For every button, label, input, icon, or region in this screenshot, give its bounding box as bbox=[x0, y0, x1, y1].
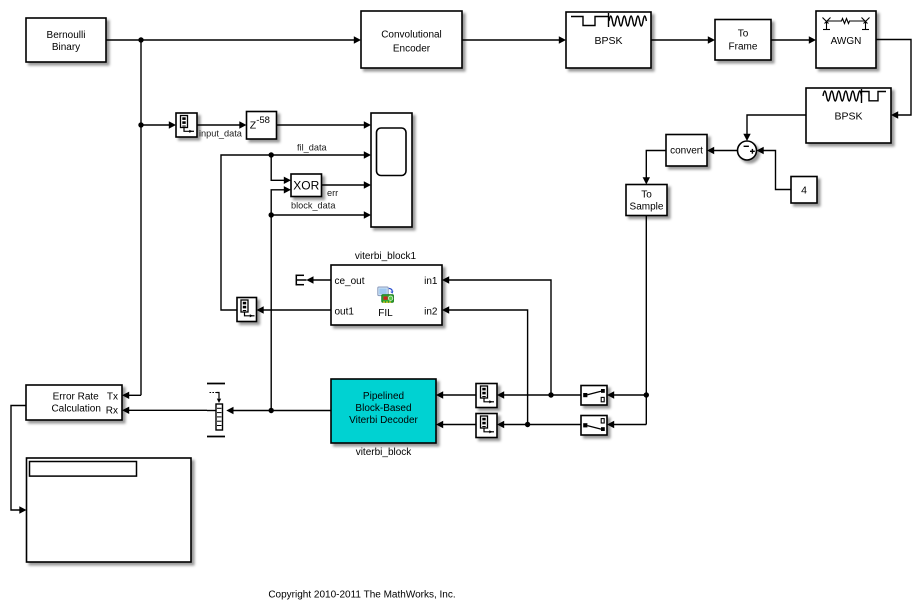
block Pipelined Block-Based Viterbi Decoder (cyan) bbox=[331, 379, 436, 443]
node junction at (271.2,410.5) bbox=[269, 408, 274, 413]
manual switch 1 (up position) bbox=[581, 386, 607, 406]
svg-text:input_data: input_data bbox=[199, 128, 243, 138]
wire FIL ce_out to terminator bbox=[306, 276, 331, 283]
svg-text:FIL: FIL bbox=[378, 308, 393, 319]
wire trunk to rate transition input_data bbox=[141, 121, 176, 128]
svg-text:fil_data: fil_data bbox=[297, 143, 328, 153]
constant 4 bbox=[791, 177, 817, 204]
wire delay to scope input 1 bbox=[277, 121, 372, 128]
wire fil_data branch down to XOR input 1 bbox=[271, 155, 291, 184]
node junction at (527.6,424.5) bbox=[525, 422, 530, 427]
wire To Frame to AWGN bbox=[771, 36, 816, 43]
block BPSK modulator bbox=[566, 12, 651, 68]
node junction at (551,395) bbox=[548, 392, 553, 397]
block Convolutional Encoder bbox=[361, 11, 462, 68]
wire vertical trunk x=141 from (141,40) down to Error Rate Tx bbox=[122, 40, 141, 399]
wire rate transition 2 to viterbi in2 bbox=[436, 421, 476, 428]
svg-text:Error Rate: Error Rate bbox=[53, 391, 100, 402]
node junction at (271.2,215) bbox=[269, 212, 274, 217]
wire switch 2 to rate transition 2 bbox=[497, 421, 581, 428]
wire BPSK demodulator to Sum bbox=[743, 115, 806, 141]
svg-text:To: To bbox=[738, 29, 749, 40]
svg-text:ce_out: ce_out bbox=[335, 276, 365, 287]
wire Error Rate output to Display bbox=[11, 406, 27, 514]
wire Convolutional Encoder to BPSK modulator bbox=[462, 36, 566, 43]
svg-text:viterbi_block1: viterbi_block1 bbox=[355, 251, 417, 262]
svg-text:Frame: Frame bbox=[729, 42, 758, 53]
scope block bbox=[371, 113, 412, 227]
svg-text:block_data: block_data bbox=[291, 201, 336, 211]
FIL icon bbox=[378, 287, 394, 303]
delay block Z-58 bbox=[247, 112, 277, 140]
svg-text:Copyright 2010-2011 The MathWo: Copyright 2010-2011 The MathWorks, Inc. bbox=[268, 590, 455, 601]
block convert (data type conversion) bbox=[666, 135, 707, 167]
wire FIL in1 from switch trunk bbox=[442, 276, 551, 395]
svg-text:Block-Based: Block-Based bbox=[355, 403, 411, 414]
svg-text:AWGN: AWGN bbox=[831, 36, 862, 47]
rate transition block 1 (to viterbi in1) bbox=[476, 384, 497, 408]
rate transition input_data block bbox=[176, 113, 197, 137]
block To Sample bbox=[626, 185, 667, 216]
node junction at (271.2,155) bbox=[269, 152, 274, 157]
wire rate transition to delay Z-58 bbox=[197, 121, 247, 128]
svg-text:Binary: Binary bbox=[52, 42, 80, 53]
svg-text:To: To bbox=[641, 190, 652, 201]
svg-text:4: 4 bbox=[801, 185, 807, 197]
node junction at (646.3,395) bbox=[644, 392, 649, 397]
svg-text:BPSK: BPSK bbox=[834, 111, 862, 123]
svg-text:viterbi_block: viterbi_block bbox=[356, 447, 413, 458]
block BPSK demodulator bbox=[806, 88, 891, 143]
svg-text:Encoder: Encoder bbox=[393, 44, 431, 55]
wire block_data branch to scope input 4 bbox=[271, 211, 371, 218]
svg-text:out1: out1 bbox=[335, 307, 355, 318]
svg-text:Tx: Tx bbox=[107, 391, 118, 402]
svg-text:Convolutional: Convolutional bbox=[381, 30, 442, 41]
wire viterbi decoder output to unbuffer bbox=[226, 407, 331, 414]
wire To Sample down to switches trunk bbox=[607, 216, 646, 429]
wire switch 1 to rate transition 1 bbox=[497, 391, 581, 398]
svg-text:-58: -58 bbox=[256, 115, 270, 126]
node junction at (141,40) bbox=[138, 37, 143, 42]
wire sum to convert bbox=[707, 147, 738, 154]
display block bbox=[27, 458, 192, 562]
svg-text:in1: in1 bbox=[424, 276, 438, 287]
block AWGN bbox=[816, 11, 876, 68]
wire convert to To Sample bbox=[643, 151, 666, 185]
sum block (minus, plus) bbox=[738, 141, 757, 160]
wire BPSK modulator to To Frame bbox=[651, 36, 715, 43]
svg-text:Bernoulli: Bernoulli bbox=[47, 30, 86, 41]
svg-text:Viterbi Decoder: Viterbi Decoder bbox=[349, 415, 418, 426]
wire unbuffer to Error Rate Rx bbox=[122, 407, 216, 414]
svg-text:Calculation: Calculation bbox=[51, 404, 100, 415]
svg-text:Rx: Rx bbox=[106, 406, 118, 417]
block Error Rate Calculation bbox=[26, 385, 122, 420]
block To Frame bbox=[715, 20, 771, 61]
wire constant 4 to sum bbox=[757, 147, 792, 190]
wire XOR output err to scope input 3 bbox=[322, 181, 372, 188]
svg-text:in2: in2 bbox=[424, 307, 438, 318]
rate transition block 2 (to viterbi in2) bbox=[476, 414, 497, 438]
block XOR (logical operator) bbox=[291, 174, 322, 197]
wire fil_data from rate transition up to scope input 2 bbox=[221, 151, 371, 310]
wire FIL out1 to rate transition bbox=[257, 306, 332, 313]
svg-text:XOR: XOR bbox=[293, 178, 319, 192]
node junction at (141,125) bbox=[138, 122, 143, 127]
svg-text:Sample: Sample bbox=[630, 201, 664, 212]
svg-text:BPSK: BPSK bbox=[594, 35, 622, 47]
wire block_data trunk to XOR input 2 bbox=[271, 186, 291, 410]
svg-text:convert: convert bbox=[670, 146, 703, 157]
svg-text:err: err bbox=[327, 188, 338, 198]
terminator (unconnected output symbol) bbox=[296, 275, 307, 286]
wire AWGN to BPSK demodulator bbox=[876, 40, 911, 119]
unbuffer block bbox=[207, 384, 225, 437]
block Bernoulli Binary bbox=[26, 18, 106, 62]
wire Bernoulli to Convolutional Encoder bbox=[106, 36, 361, 43]
svg-text:Pipelined: Pipelined bbox=[363, 391, 404, 402]
wire rate transition 1 to viterbi in1 bbox=[436, 391, 476, 398]
manual switch 2 (down position) bbox=[581, 416, 607, 436]
block FIL viterbi_block1 bbox=[331, 265, 442, 325]
rate transition block left of FIL bbox=[237, 298, 257, 322]
wire FIL in2 from switch trunk bbox=[442, 306, 528, 424]
